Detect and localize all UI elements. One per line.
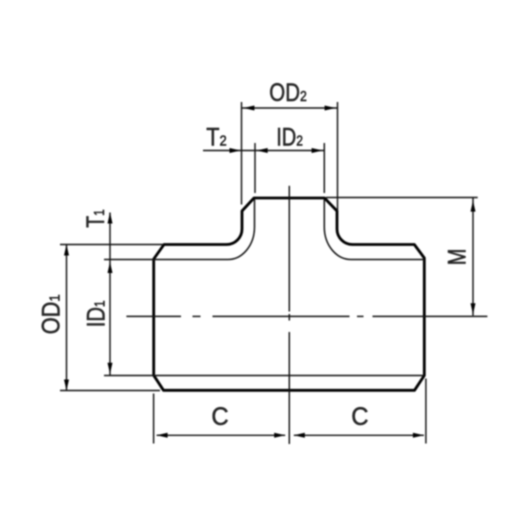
svg-text:C: C [351,403,368,431]
svg-text:C: C [211,403,228,431]
svg-text:M: M [444,249,472,266]
